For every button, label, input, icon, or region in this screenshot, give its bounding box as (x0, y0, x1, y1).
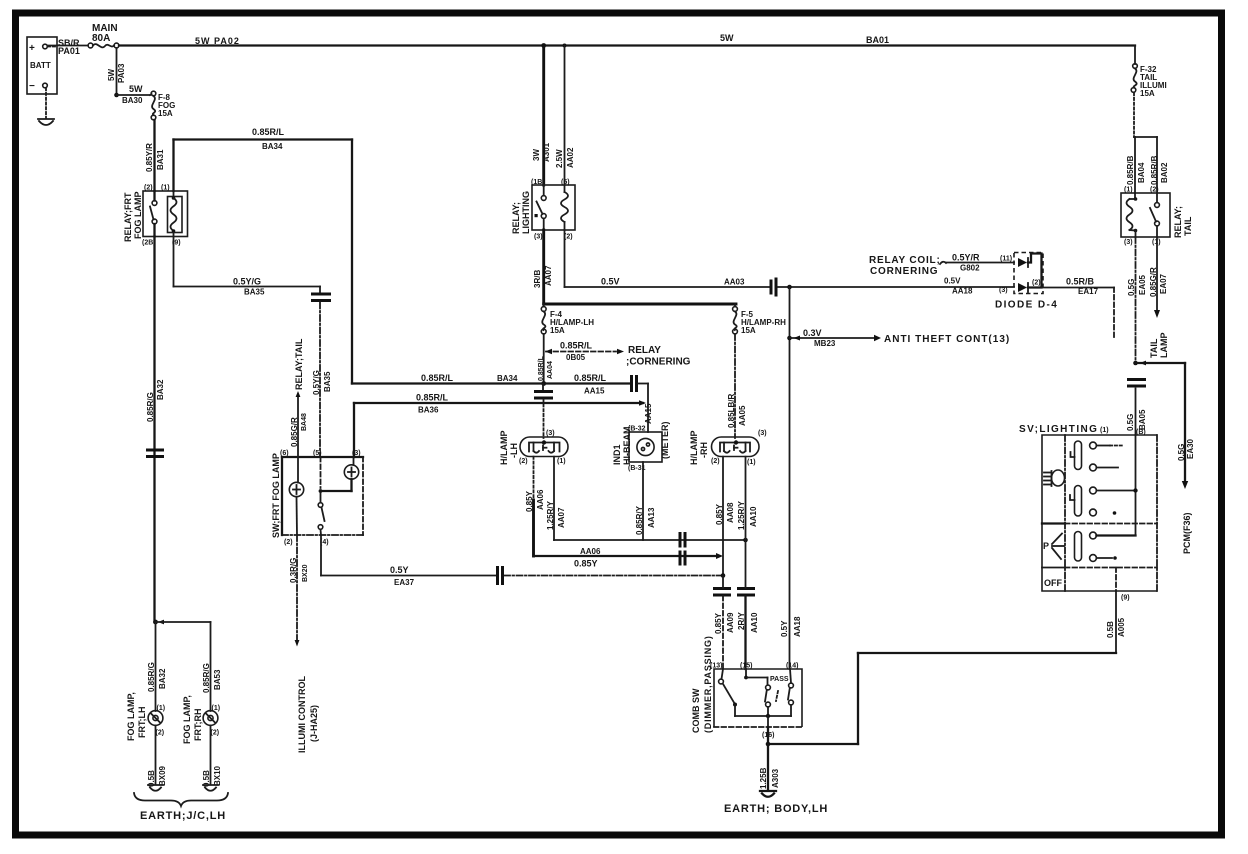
wire dimmer common bus (735, 714, 791, 727)
svg-text:BA02: BA02 (1160, 162, 1169, 183)
lamp FOG LAMP FRT;RH (182, 695, 220, 744)
svg-text:COMB SW: COMB SW (691, 688, 701, 733)
switch COMB SW (DIMMER,PASSING) box (691, 635, 802, 733)
svg-text:3W: 3W (532, 149, 541, 161)
svg-text:FOG LAMP: FOG LAMP (133, 192, 143, 240)
diode D-4 (995, 253, 1058, 311)
label RELAY COIL; CORNERING (869, 255, 941, 277)
svg-text:AA07: AA07 (544, 265, 553, 286)
wire 2R/Y AA10 (737, 540, 759, 669)
wire 0.85R/B BA04 (1126, 137, 1146, 193)
svg-text:BA30: BA30 (122, 96, 143, 105)
wire 0.85Y AA06 (525, 457, 723, 569)
svg-text:0.85R/L: 0.85R/L (421, 373, 454, 383)
svg-text:0.85Y: 0.85Y (525, 490, 534, 512)
wire 0.5Y EA37 from fog switch pin 4 (321, 535, 722, 587)
fuse F-32 TAIL ILLUMI 15A (1131, 64, 1166, 98)
svg-text:5W PA02: 5W PA02 (195, 36, 240, 46)
svg-text:RELAY: RELAY (628, 345, 661, 356)
svg-text:FOG LAMP,: FOG LAMP, (182, 695, 192, 744)
wire 0.3V MB23 anti-theft reference (790, 328, 1011, 348)
connector inline on AA15 (632, 375, 637, 392)
svg-text:1.25B: 1.25B (759, 767, 768, 789)
svg-text:0.85R/B: 0.85R/B (1150, 155, 1159, 185)
wire 0.85R/G BA32 relay output (146, 237, 165, 623)
svg-text:BA34: BA34 (497, 374, 518, 383)
svg-text:0.85Y: 0.85Y (715, 503, 724, 525)
svg-text:G802: G802 (960, 264, 980, 273)
svg-text:0.5B: 0.5B (1106, 621, 1115, 638)
svg-text:FRT;LH: FRT;LH (137, 707, 147, 739)
wire 0.5V AA18 to diode (778, 277, 1014, 296)
node junction BA34/AA04 (541, 381, 546, 386)
wire 0.5B BX09 (147, 725, 167, 787)
relay fog switch contact (150, 191, 157, 237)
wire 0.5G BA05 to lighting switch (1126, 389, 1147, 437)
svg-text:(3): (3) (758, 430, 767, 437)
icon headlamp position (1044, 470, 1065, 486)
svg-text:EARTH;J/C,LH: EARTH;J/C,LH (140, 810, 226, 822)
wire 1.25R/Y AA10 (737, 457, 758, 540)
svg-text:ANTI THEFT CONT(13): ANTI THEFT CONT(13) (884, 334, 1010, 345)
connector inline on AA06 run (680, 551, 685, 566)
svg-text:(2): (2) (144, 185, 153, 192)
svg-text:AA10: AA10 (749, 506, 758, 527)
svg-text:IND1: IND1 (612, 444, 622, 465)
svg-text:BA05: BA05 (1138, 409, 1147, 430)
svg-text:DIODE D-4: DIODE D-4 (995, 300, 1058, 311)
wire 0.85R/L BA34 AA15 horizontal (352, 373, 630, 396)
wire battery positive to main fuse (48, 45, 88, 47)
ground fog lamp RH (203, 785, 218, 791)
svg-text:0.85R/G: 0.85R/G (202, 663, 211, 693)
svg-text:BX10: BX10 (213, 765, 222, 786)
svg-text:1.25R/Y: 1.25R/Y (546, 500, 555, 530)
svg-text:0.5G: 0.5G (1177, 444, 1186, 461)
svg-text:BATT: BATT (30, 61, 51, 70)
wire 0.85R/B BA02 (1150, 137, 1169, 193)
svg-text:EA17: EA17 (1078, 287, 1099, 296)
svg-text:0.5V: 0.5V (944, 277, 961, 286)
node junction AA10 (743, 538, 748, 543)
indicator IND1 HI-BEAM (METER) (612, 422, 670, 473)
wire 2.5W AA02 feed to lighting relay coil (555, 46, 575, 186)
wire 0.5B A005 (768, 591, 1126, 744)
svg-text:+: + (29, 43, 35, 54)
wire 0.85R/L AA04 fuse F-4 output (538, 334, 554, 384)
svg-text:0.85R/G: 0.85R/G (146, 392, 155, 422)
icon parking lamp P (1043, 534, 1064, 560)
svg-text:CORNERING: CORNERING (870, 266, 938, 277)
svg-text:0.85Y/R: 0.85Y/R (145, 143, 154, 172)
svg-text:AA07: AA07 (557, 507, 566, 528)
svg-text:(11): (11) (1000, 256, 1012, 263)
svg-text:H/LAMP: H/LAMP (499, 431, 509, 466)
relay RELAY;LIGHTING (511, 179, 575, 241)
svg-text:BA34: BA34 (262, 142, 283, 151)
svg-text:15A: 15A (550, 326, 565, 335)
wire 0.5Y AA18 down to dimmer switch (780, 287, 802, 669)
connector inline on AA09 (713, 589, 731, 596)
svg-text:0.3R/G: 0.3R/G (289, 558, 298, 583)
svg-text:0.3V: 0.3V (803, 328, 822, 338)
svg-text:0.5Y: 0.5Y (780, 620, 789, 637)
wire terminal 9 internal (1115, 568, 1117, 592)
fusible link MAIN 80A (88, 23, 119, 48)
relay fog coil (168, 191, 183, 237)
svg-text:FRT;RH: FRT;RH (193, 709, 203, 742)
relay tail switch contact (1150, 193, 1159, 237)
wire 0.85G/R EA07 to tail lamp (1149, 237, 1169, 358)
svg-text:0.85Y: 0.85Y (574, 559, 598, 569)
svg-text:BA35: BA35 (244, 288, 265, 297)
svg-text:5W: 5W (720, 33, 734, 43)
svg-text:BA36: BA36 (418, 406, 439, 415)
connector inline on EA37 (498, 566, 503, 585)
svg-text:PASS: PASS (770, 676, 789, 683)
wire bus down to fuse F-32 (1134, 46, 1136, 65)
svg-text:(1): (1) (212, 705, 221, 712)
svg-text:BA35: BA35 (323, 371, 332, 392)
svg-text:(2): (2) (211, 730, 220, 737)
wire 0.3R/G BX20 to illumi control (289, 535, 319, 753)
dimmer switch low contact (719, 669, 737, 716)
svg-text:(1): (1) (747, 459, 756, 466)
svg-text:(1): (1) (1100, 427, 1109, 434)
connector inline on hi-beam net (680, 532, 685, 548)
svg-text:AA15: AA15 (644, 403, 653, 424)
wire terminal B internal (1133, 435, 1137, 536)
svg-text:0.85R/L: 0.85R/L (416, 393, 449, 403)
svg-text:(1): (1) (157, 705, 166, 712)
wire main bus 5W PA02 / BA01 (119, 33, 1135, 46)
wire 0.5G EA30 to PCM (1136, 361, 1196, 554)
svg-text:(2): (2) (519, 458, 528, 465)
svg-text:BA01: BA01 (866, 35, 889, 45)
switch contact strips (1070, 441, 1082, 561)
svg-text:0.5Y: 0.5Y (390, 565, 409, 575)
svg-text:RELAY;FRT: RELAY;FRT (123, 192, 133, 242)
wire 0.85Y AA08 (715, 457, 735, 576)
relay lighting switch contact (535, 185, 547, 230)
svg-text:AA04: AA04 (547, 361, 554, 379)
fog switch contact (318, 457, 324, 535)
svg-text:2R/Y: 2R/Y (737, 612, 746, 630)
svg-text:15A: 15A (1140, 89, 1155, 98)
node junction EA37/AA08 (721, 573, 726, 578)
svg-text:AA18: AA18 (793, 616, 802, 637)
wire 0.85Y AA09 (714, 576, 735, 670)
svg-text:BX09: BX09 (158, 765, 167, 786)
svg-text:(3): (3) (999, 287, 1008, 294)
switch terminals (1090, 442, 1136, 561)
svg-text:AA06: AA06 (580, 547, 601, 556)
svg-text:A005: A005 (1117, 617, 1126, 637)
svg-text:1.25R/Y: 1.25R/Y (737, 500, 746, 530)
svg-text:0.5Y/G: 0.5Y/G (233, 277, 261, 287)
svg-text:MB23: MB23 (814, 339, 836, 348)
svg-text:H/LAMP: H/LAMP (689, 431, 699, 466)
svg-text:TAIL: TAIL (1183, 216, 1193, 236)
svg-text:0.85R/Y: 0.85R/Y (635, 505, 644, 535)
svg-text:BA04: BA04 (1137, 162, 1146, 183)
svg-text:LAMP: LAMP (1159, 333, 1169, 359)
svg-text:(1): (1) (161, 185, 170, 192)
svg-text:SV;LIGHTING: SV;LIGHTING (1019, 424, 1098, 435)
svg-text:(3): (3) (534, 234, 543, 241)
svg-text:BA32: BA32 (158, 668, 167, 689)
wire 3R/B AA07 relay output (533, 230, 553, 304)
fuse F-5 H/LAMP-RH 15A (733, 304, 787, 335)
svg-text:AA02: AA02 (566, 147, 575, 168)
fuse F-4 H/LAMP-LH 15A (541, 304, 594, 335)
ground battery (38, 119, 54, 125)
svg-text:AA13: AA13 (647, 507, 656, 528)
svg-text:0.85R/L: 0.85R/L (574, 373, 607, 383)
svg-text:RELAY COIL;: RELAY COIL; (869, 255, 941, 266)
svg-text:(METER): (METER) (660, 422, 670, 460)
wire 0.85LB/R AA05 fuse F-5 output (727, 334, 747, 438)
wire 0.85R/L BA36 (354, 393, 646, 458)
wire 0.85R/L 0B05 cornering relay reference (545, 341, 691, 368)
wire fuse to tail relay split (1134, 93, 1157, 137)
passing switch contact (776, 669, 793, 716)
relay RELAY;FRT FOG LAMP (123, 185, 188, 247)
svg-text:3R/B: 3R/B (533, 270, 542, 288)
svg-text:0.5Y/G: 0.5Y/G (312, 370, 321, 395)
svg-text:0.85Y: 0.85Y (714, 612, 723, 634)
wire 0.5R/B EA17 from diode pin 2 (1032, 277, 1114, 341)
svg-text:BA32: BA32 (156, 379, 165, 400)
switch SW;FRT FOG LAMP box (271, 450, 363, 546)
svg-text:BX20: BX20 (302, 564, 309, 582)
connector inline on 0.5V wire (771, 278, 776, 297)
relay RELAY;TAIL (1121, 187, 1193, 247)
wire 3W A301 feed to lighting relay (532, 46, 551, 186)
ground earth body LH (724, 791, 828, 815)
svg-text:AA18: AA18 (952, 287, 973, 296)
svg-text:−: − (29, 81, 35, 92)
svg-text:(2): (2) (1032, 280, 1041, 287)
connector inline on AA10 (737, 589, 755, 596)
fog switch illumination lamp (289, 457, 303, 535)
svg-text:(3): (3) (1124, 239, 1133, 246)
svg-text:0.85R/B: 0.85R/B (1126, 155, 1135, 185)
svg-text:0.85G/R: 0.85G/R (290, 417, 299, 447)
svg-text:0B05: 0B05 (566, 353, 586, 362)
svg-text:(2): (2) (711, 458, 720, 465)
svg-text:BA53: BA53 (213, 669, 222, 690)
wire 0.5Y/G BA35 from coil bottom (174, 237, 321, 297)
svg-text:ILLUMI CONTROL: ILLUMI CONTROL (297, 676, 307, 753)
svg-text:RELAY;: RELAY; (511, 202, 521, 234)
svg-text:PA03: PA03 (117, 63, 126, 83)
svg-text:;CORNERING: ;CORNERING (626, 357, 691, 368)
svg-text:BA31: BA31 (156, 149, 165, 170)
node bus tap AA02 (563, 44, 567, 48)
svg-text:EA30: EA30 (1186, 438, 1195, 459)
lamp FOG LAMP FRT;LH (126, 692, 165, 741)
svg-text:(14): (14) (786, 663, 798, 670)
svg-text:PA01: PA01 (58, 46, 80, 56)
svg-text:SW;FRT FOG LAMP: SW;FRT FOG LAMP (271, 453, 281, 538)
svg-text:A301: A301 (542, 142, 551, 162)
wire 0.85G/R BA48 to relay tail reference (290, 338, 308, 457)
svg-text:(5): (5) (313, 450, 322, 457)
svg-text:(DIMMER,PASSING): (DIMMER,PASSING) (703, 635, 713, 733)
svg-text:0.85R/G: 0.85R/G (147, 662, 156, 692)
svg-text:AA05: AA05 (738, 405, 747, 426)
svg-text:HI-BEAM: HI-BEAM (622, 427, 632, 466)
svg-text:0.85R/L: 0.85R/L (560, 341, 593, 351)
fog switch indicator lamp (321, 457, 359, 491)
svg-text:AA08: AA08 (726, 502, 735, 523)
wire bus headlamp fuses (544, 303, 736, 306)
relay tail coil (1127, 193, 1138, 237)
node junction 0.5V / AA18 (787, 285, 792, 290)
fuse F-8 FOG 15A (150, 91, 175, 120)
wire 0.5B BX10 (202, 725, 222, 787)
svg-text:15A: 15A (158, 109, 173, 118)
svg-text:(6): (6) (280, 450, 289, 457)
wire 0.5V AA03 from relay coil (565, 230, 770, 287)
dimmer switch hi contact (744, 669, 770, 716)
svg-text:0.5R/B: 0.5R/B (1066, 277, 1095, 287)
wire AA15 to hi-beam indicator (638, 384, 653, 433)
svg-text:0.5G: 0.5G (1126, 414, 1135, 431)
wire hi-beam net AA07/AA13/AA10 (554, 539, 746, 541)
battery BATT (27, 37, 57, 94)
brace earth J/C LH (134, 793, 228, 822)
svg-text:BA48: BA48 (301, 413, 308, 431)
svg-text:-RH: -RH (699, 442, 709, 458)
svg-text:RELAY;TAIL: RELAY;TAIL (294, 338, 304, 390)
node bus to lighting relay (541, 43, 546, 48)
svg-text:5W: 5W (107, 69, 116, 81)
svg-text:0.85R/L: 0.85R/L (538, 355, 545, 381)
svg-text:-LH: -LH (509, 443, 519, 458)
wire comb sw earth (759, 727, 780, 789)
svg-text:(1): (1) (557, 458, 566, 465)
switch SV;LIGHTING box (1019, 424, 1157, 591)
svg-text:(1B): (1B) (531, 179, 545, 186)
svg-text:0.85G/R: 0.85G/R (1149, 267, 1158, 297)
svg-text:(J-HA25): (J-HA25) (309, 705, 319, 742)
svg-text:(2): (2) (156, 730, 165, 737)
svg-text:AA06: AA06 (536, 489, 545, 510)
connector inline on BA35 (311, 294, 331, 301)
wire 0.85R/G BA32 to fog lamp LH (147, 622, 167, 711)
svg-text:AA03: AA03 (724, 278, 745, 287)
svg-text:A303: A303 (771, 768, 780, 788)
svg-text:EA37: EA37 (394, 578, 415, 587)
svg-text:EARTH; BODY,LH: EARTH; BODY,LH (724, 803, 828, 815)
svg-text:AA15: AA15 (584, 387, 605, 396)
svg-text:5W: 5W (129, 84, 143, 94)
wire 0.85R/Y AA13 (635, 462, 656, 540)
connector inline on 0.5G wire (1127, 380, 1146, 387)
svg-text:15A: 15A (741, 326, 756, 335)
svg-text:TAIL: TAIL (1149, 338, 1159, 358)
svg-text:P: P (1043, 541, 1049, 551)
svg-text:AA10: AA10 (750, 612, 759, 633)
svg-text:(1): (1) (1124, 187, 1133, 194)
connector inline headlamp LH feed (534, 384, 553, 439)
svg-text:0.85R/L: 0.85R/L (252, 127, 285, 137)
svg-text:0.85LB/R: 0.85LB/R (727, 394, 736, 428)
svg-text:(2): (2) (284, 539, 293, 546)
wire 1.25R/Y AA07 (546, 457, 566, 540)
svg-text:RELAY;: RELAY; (1173, 206, 1183, 238)
connector inline on BA32 (146, 450, 164, 457)
wire 5W BA30 (117, 84, 151, 105)
wire 0.5G EA05 (1127, 237, 1147, 363)
ground fog lamp LH (148, 785, 163, 791)
svg-text:2.5W: 2.5W (555, 149, 564, 168)
relay lighting coil (561, 185, 568, 230)
headlamp H/LAMP-LH (499, 430, 568, 465)
svg-text:EA07: EA07 (1159, 273, 1168, 294)
node junction fog lamp split (153, 620, 164, 625)
svg-text:0.5V: 0.5V (601, 277, 620, 287)
svg-text:AA09: AA09 (726, 612, 735, 633)
svg-text:0.5Y/R: 0.5Y/R (952, 253, 980, 263)
wire 0.85R/G BA53 to fog lamp RH (156, 622, 223, 711)
wire 5W PA03 (107, 48, 126, 95)
svg-text:(9): (9) (1121, 595, 1130, 602)
wire battery negative to ground (45, 88, 47, 118)
svg-text:FOG LAMP,: FOG LAMP, (126, 692, 136, 741)
svg-text:PCM(F36): PCM(F36) (1182, 512, 1192, 554)
headlamp H/LAMP-RH (689, 430, 767, 466)
svg-text:(3): (3) (546, 430, 555, 437)
node junction 5W (114, 93, 119, 98)
wire 0.5Y/G BA35 down to fog switch (312, 303, 332, 458)
wire 0.5Y/R G802 to diode pin 11 (940, 253, 1014, 273)
svg-text:OFF: OFF (1044, 578, 1062, 588)
node junction 0.5G (1133, 361, 1138, 366)
svg-text:EA05: EA05 (1138, 274, 1147, 295)
wire 0.85R/L BA34 from coil up and across (174, 127, 353, 384)
svg-text:0.5G: 0.5G (1127, 279, 1136, 296)
wire 0.85Y/R BA31 (145, 120, 165, 191)
node tap 0.3V MB23 (787, 336, 792, 341)
svg-text:80A: 80A (92, 33, 110, 44)
svg-text:LIGHTING: LIGHTING (521, 191, 531, 234)
